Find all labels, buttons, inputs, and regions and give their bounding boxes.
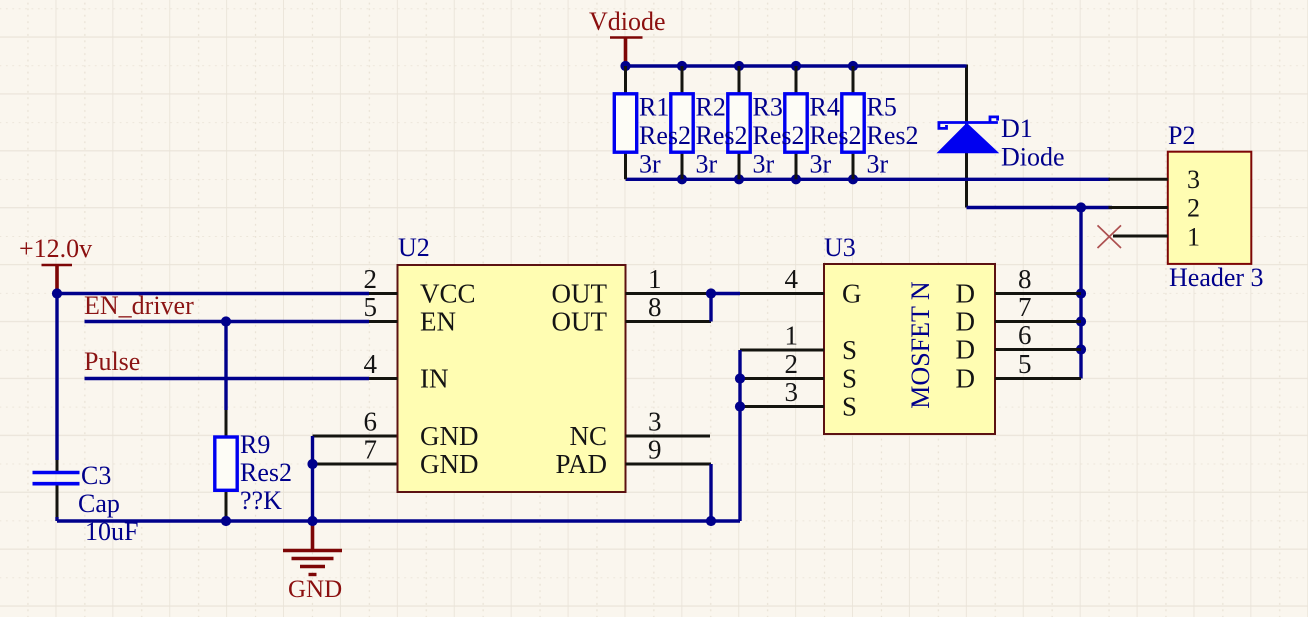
svg-text:2: 2: [364, 264, 378, 294]
wire: diode branch vertical: [965, 65, 968, 208]
svg-text:4: 4: [364, 349, 378, 379]
svg-text:Res2: Res2: [240, 458, 292, 487]
svg-text:R4: R4: [810, 93, 840, 122]
svg-text:GND: GND: [288, 576, 342, 603]
wire: EN to R9 vertical: [224, 322, 227, 411]
svg-text:5: 5: [1018, 349, 1032, 379]
wire: vertical bus to MOSFET drains: [1079, 208, 1082, 379]
svg-text:Diode: Diode: [1001, 143, 1065, 172]
svg-text:Pulse: Pulse: [84, 347, 140, 376]
wire: Pulse net: [85, 377, 370, 380]
svg-text:6: 6: [364, 407, 378, 437]
wire: diode to P2 pin2 net: [967, 206, 1113, 209]
svg-text:3r: 3r: [639, 150, 661, 179]
power port Vdiode: [589, 7, 666, 64]
node: junction R3 top: [734, 61, 744, 71]
svg-text:7: 7: [364, 435, 378, 465]
node: OUT junction: [706, 288, 716, 298]
node: junction R5 bottom: [848, 174, 858, 184]
node: junction at pin2 net: [1076, 202, 1086, 212]
svg-text:R2: R2: [696, 93, 726, 122]
node: junction R5 top: [848, 61, 858, 71]
svg-text:Cap: Cap: [78, 489, 120, 518]
svg-text:2: 2: [785, 349, 799, 379]
pin stubs right: [995, 294, 1081, 379]
svg-text:7: 7: [1018, 292, 1032, 322]
svg-text:6: 6: [1018, 320, 1032, 350]
svg-text:VCC: VCC: [420, 279, 476, 309]
svg-text:R1: R1: [639, 93, 669, 122]
svg-text:D: D: [956, 279, 976, 309]
svg-text:3r: 3r: [867, 150, 889, 179]
wire: source bus vertical: [738, 350, 741, 521]
node: junction source pin2: [735, 373, 745, 383]
resistor R4: [785, 66, 807, 179]
node: junction drain pin8: [1076, 288, 1086, 298]
pin stubs left: [369, 294, 398, 379]
resistor R2: [671, 66, 693, 179]
svg-text:R3: R3: [753, 93, 783, 122]
node: junction drain pin7: [1076, 316, 1086, 326]
wire: +12v vertical to bottom rail: [55, 294, 58, 461]
svg-text:Res2: Res2: [867, 121, 919, 150]
svg-text:OUT: OUT: [552, 279, 608, 309]
svg-text:3r: 3r: [753, 150, 775, 179]
svg-text:R5: R5: [867, 93, 897, 122]
svg-text:2: 2: [1187, 194, 1200, 223]
resistor labels R1-R5: [639, 93, 919, 179]
wire: PAD pin9 to rail: [626, 463, 712, 466]
node: junction R1 top: [620, 61, 630, 71]
svg-text:S: S: [842, 364, 857, 394]
svg-text:Vdiode: Vdiode: [589, 7, 666, 36]
svg-text:S: S: [842, 392, 857, 422]
node: rail junction at GND: [307, 516, 317, 526]
wire: EN net: [85, 320, 370, 323]
wire: resistor bottom rail to P2 pin3: [626, 178, 1111, 181]
wire: OUT pin1 to junction: [626, 292, 712, 295]
svg-text:+12.0v: +12.0v: [19, 234, 92, 263]
svg-text:IN: IN: [420, 364, 449, 394]
IC U3 MOSFET: [740, 233, 1081, 434]
node: junction PAD at rail: [706, 516, 716, 526]
pin stubs left: [740, 294, 824, 407]
svg-text:1: 1: [785, 321, 799, 351]
resistor R3: [728, 66, 750, 179]
svg-text:??K: ??K: [240, 486, 282, 515]
resistor R5: [842, 66, 864, 179]
svg-text:Res2: Res2: [753, 121, 805, 150]
node: junction R2 top: [677, 61, 687, 71]
IC U2: [364, 233, 662, 492]
diode D1: [938, 114, 1065, 172]
wire: NC pin3 open stub: [626, 435, 711, 438]
svg-text:NC: NC: [569, 421, 607, 451]
ground symbol GND: [283, 524, 342, 604]
resistor R1: [614, 66, 636, 179]
node: junction R4 bottom: [791, 174, 801, 184]
node: junction source pin3: [735, 401, 745, 411]
svg-text:Res2: Res2: [810, 121, 862, 150]
svg-text:3r: 3r: [810, 150, 832, 179]
svg-text:1: 1: [1187, 223, 1200, 252]
svg-text:U2: U2: [398, 233, 430, 262]
svg-text:8: 8: [1018, 264, 1032, 294]
power port +12.0v: [19, 234, 92, 291]
node: junction drain pin6: [1076, 344, 1086, 354]
node: junction EN net: [221, 316, 231, 326]
svg-text:EN: EN: [420, 307, 456, 337]
svg-text:1: 1: [648, 264, 662, 294]
svg-text:Header 3: Header 3: [1169, 263, 1264, 292]
no-ERC marker at P2 pin1: [1098, 225, 1122, 248]
svg-text:PAD: PAD: [555, 449, 607, 479]
svg-text:3: 3: [1187, 165, 1200, 194]
svg-text:D: D: [956, 307, 976, 337]
svg-text:D: D: [956, 364, 976, 394]
svg-text:U3: U3: [824, 233, 856, 262]
svg-text:EN_driver: EN_driver: [84, 291, 194, 320]
wire: U2 GND pins to rail: [313, 435, 398, 438]
svg-text:GND: GND: [420, 449, 479, 479]
connector P2: [1109, 121, 1264, 292]
wire: bottom GND rail: [57, 519, 740, 522]
wire: OUT net to U3 gate: [711, 292, 740, 295]
svg-text:OUT: OUT: [552, 307, 608, 337]
svg-text:MOSFET N: MOSFET N: [906, 281, 935, 409]
svg-text:3: 3: [648, 407, 662, 437]
svg-text:G: G: [842, 279, 862, 309]
svg-text:5: 5: [364, 292, 378, 322]
svg-text:GND: GND: [420, 421, 479, 451]
svg-text:9: 9: [648, 435, 662, 465]
svg-text:4: 4: [785, 264, 799, 294]
svg-text:P2: P2: [1168, 121, 1195, 150]
wire: VCC net horizontal: [57, 292, 369, 295]
svg-text:D: D: [956, 335, 976, 365]
node: +12v junction: [52, 288, 62, 298]
svg-text:S: S: [842, 335, 857, 365]
svg-text:Res2: Res2: [696, 121, 748, 150]
node: junction R9 at rail: [221, 516, 231, 526]
node: junction R2 bottom: [677, 174, 687, 184]
node: junction R4 top: [791, 61, 801, 71]
svg-text:3: 3: [785, 377, 799, 407]
capacitor C3: [33, 461, 139, 546]
resistor R9: [215, 410, 292, 521]
node: junction GND pin7: [307, 459, 317, 469]
svg-text:8: 8: [648, 292, 662, 322]
svg-text:Res2: Res2: [639, 121, 691, 150]
wire: Vdiode top rail: [626, 64, 966, 67]
node: junction R3 bottom: [734, 174, 744, 184]
svg-text:3r: 3r: [696, 150, 718, 179]
svg-text:D1: D1: [1001, 114, 1033, 143]
svg-text:C3: C3: [81, 461, 111, 490]
svg-text:R9: R9: [240, 430, 270, 459]
wire: OUT pin8 to junction: [626, 320, 712, 323]
